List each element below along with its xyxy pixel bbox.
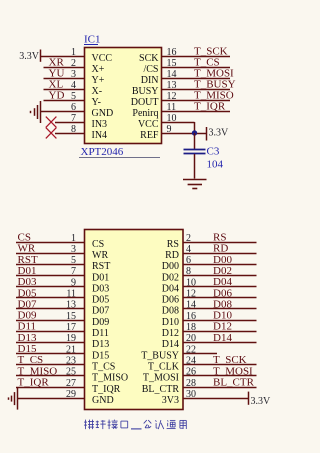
svg-text:X+: X+ bbox=[92, 64, 105, 75]
pin 7 wire (no connect) bbox=[55, 113, 85, 124]
svg-text:GND: GND bbox=[92, 395, 114, 406]
wire node to C3 bbox=[194, 133, 196, 149]
svg-text:15: 15 bbox=[66, 311, 76, 322]
capacitor C3 bbox=[184, 150, 206, 154]
svg-text:D02: D02 bbox=[213, 265, 232, 277]
junction node (pin9/pin10/C3) bbox=[192, 130, 197, 135]
svg-text:X-: X- bbox=[92, 86, 103, 97]
pin 24 wire / net T_SCK bbox=[183, 355, 257, 366]
net label T_SCK bbox=[194, 46, 228, 58]
svg-text:3V3: 3V3 bbox=[162, 395, 179, 406]
svg-text:T_MISO: T_MISO bbox=[92, 373, 128, 384]
svg-text:4: 4 bbox=[71, 80, 76, 91]
svg-text:DOUT: DOUT bbox=[131, 97, 159, 108]
svg-text:D13: D13 bbox=[92, 339, 109, 350]
pin 21 wire / net D15 bbox=[16, 344, 85, 355]
svg-text:16: 16 bbox=[167, 47, 177, 58]
svg-text:BUSY: BUSY bbox=[132, 86, 159, 97]
wire pin10 down to node bbox=[194, 122, 196, 133]
svg-text:DIN: DIN bbox=[141, 75, 159, 86]
power 3.3V (pin 30) bbox=[249, 392, 272, 408]
pin 6 GND wire bbox=[41, 102, 85, 113]
svg-text:IN3: IN3 bbox=[92, 119, 108, 130]
svg-text:5: 5 bbox=[71, 255, 76, 266]
pin 13 wire / net T_BUSY bbox=[162, 80, 231, 91]
svg-text:T_IQR: T_IQR bbox=[92, 384, 121, 395]
svg-text:T_IQR: T_IQR bbox=[18, 377, 50, 389]
svg-text:D06: D06 bbox=[162, 295, 179, 306]
pin 22 wire (unlabelled) bbox=[183, 344, 217, 355]
net label T_MISO bbox=[18, 365, 58, 377]
net label BL_CTR bbox=[213, 377, 255, 389]
IC1 right pin names bbox=[131, 53, 160, 141]
svg-text:1: 1 bbox=[71, 47, 76, 58]
IC value XPT2046 bbox=[79, 146, 160, 158]
pin 11 wire / net T_IQR bbox=[162, 102, 231, 113]
pin 4 wire / net RD bbox=[183, 244, 257, 255]
svg-text:3.3V: 3.3V bbox=[251, 396, 272, 407]
svg-text:GND: GND bbox=[92, 108, 114, 119]
svg-text:12: 12 bbox=[167, 91, 177, 102]
svg-text:10: 10 bbox=[186, 277, 196, 288]
IC1 left pin names bbox=[92, 53, 114, 141]
svg-text:12: 12 bbox=[186, 289, 196, 300]
net label D11 bbox=[18, 321, 37, 333]
svg-text:RS: RS bbox=[167, 239, 179, 250]
svg-text:IN4: IN4 bbox=[92, 130, 108, 141]
svg-text:/CS: /CS bbox=[143, 64, 158, 75]
net label T_MISO bbox=[194, 90, 234, 102]
net label D06 bbox=[213, 287, 232, 299]
net label D05 bbox=[18, 287, 37, 299]
net label D15 bbox=[18, 343, 37, 355]
svg-text:20: 20 bbox=[186, 333, 196, 344]
pin 19 wire / net D13 bbox=[16, 333, 85, 344]
svg-text:YD: YD bbox=[49, 90, 65, 102]
svg-text:9: 9 bbox=[167, 124, 172, 135]
pin 1 VCC wire bbox=[41, 47, 85, 58]
svg-text:D11: D11 bbox=[18, 321, 37, 333]
pin 20 wire / net D14 bbox=[183, 333, 257, 344]
svg-text:D08: D08 bbox=[162, 306, 179, 317]
svg-text:21: 21 bbox=[66, 344, 76, 355]
svg-text:25: 25 bbox=[66, 367, 76, 378]
net label YU bbox=[49, 68, 65, 80]
svg-text:T_MOSI: T_MOSI bbox=[213, 365, 253, 377]
svg-text:T_MISO: T_MISO bbox=[18, 365, 58, 377]
svg-text:2: 2 bbox=[186, 233, 191, 244]
svg-text:19: 19 bbox=[66, 333, 76, 344]
svg-text:IC1: IC1 bbox=[84, 34, 101, 46]
pin 9 REF wire bbox=[162, 124, 207, 135]
net label T_SCK bbox=[213, 354, 247, 366]
svg-text:D10: D10 bbox=[162, 317, 179, 328]
net label T_IQR bbox=[194, 101, 226, 113]
svg-text:CS: CS bbox=[18, 232, 31, 244]
pin 28 wire / net BL_CTR bbox=[183, 378, 257, 389]
svg-text:XPT2046: XPT2046 bbox=[81, 146, 124, 158]
connector right pin names bbox=[141, 239, 180, 406]
svg-text:1: 1 bbox=[71, 233, 76, 244]
net label RST bbox=[18, 254, 38, 266]
net label D03 bbox=[18, 276, 37, 288]
net label T_MOSI bbox=[213, 365, 253, 377]
net label RD bbox=[213, 243, 228, 255]
net label RS bbox=[213, 232, 226, 244]
caption 排针接口__公认通用 bbox=[84, 420, 186, 430]
pin 2 wire / net RS bbox=[183, 233, 257, 244]
power 3.3V (pin 1) bbox=[19, 50, 40, 63]
svg-text:D09: D09 bbox=[92, 317, 109, 328]
svg-text:T_IQR: T_IQR bbox=[194, 101, 226, 113]
svg-text:D07: D07 bbox=[92, 306, 109, 317]
svg-text:RS: RS bbox=[213, 232, 226, 244]
svg-text:26: 26 bbox=[186, 367, 196, 378]
pin 25 wire / net T_MISO bbox=[16, 367, 85, 378]
svg-text:VCC: VCC bbox=[138, 119, 159, 130]
svg-text:29: 29 bbox=[66, 389, 76, 400]
svg-text:22: 22 bbox=[186, 344, 196, 355]
net label D02 bbox=[213, 265, 232, 277]
svg-text:7: 7 bbox=[71, 113, 76, 124]
svg-text:D15: D15 bbox=[92, 350, 109, 361]
ground (pin 6, sideways) bbox=[31, 101, 41, 123]
pin 1 wire / net CS bbox=[16, 233, 85, 244]
svg-text:D14: D14 bbox=[213, 332, 232, 344]
net label YD bbox=[49, 90, 65, 102]
IC IC1 body (XPT2046) bbox=[85, 48, 162, 144]
svg-text:11: 11 bbox=[66, 289, 76, 300]
svg-text:D03: D03 bbox=[18, 276, 37, 288]
pin 16 wire / net D10 bbox=[183, 311, 257, 322]
capacitor value 104 bbox=[207, 159, 224, 171]
svg-text:CS: CS bbox=[92, 239, 104, 250]
svg-text:23: 23 bbox=[66, 355, 76, 366]
connector header body bbox=[85, 230, 184, 410]
pin 11 wire / net D05 bbox=[16, 289, 85, 300]
pin 10 wire / net D04 bbox=[183, 277, 257, 288]
pin 29 GND wire bbox=[17, 389, 84, 400]
no-connect X pin 7 bbox=[46, 117, 57, 128]
net label D14 bbox=[213, 332, 232, 344]
net label D13 bbox=[18, 332, 37, 344]
pin 23 wire / net T_CS bbox=[16, 355, 85, 366]
svg-text:D04: D04 bbox=[162, 283, 179, 294]
svg-text:104: 104 bbox=[207, 159, 224, 171]
net label D08 bbox=[213, 298, 232, 310]
pin 3 wire / net YU bbox=[44, 69, 85, 80]
svg-text:D14: D14 bbox=[162, 339, 179, 350]
net label T_CS bbox=[194, 57, 220, 69]
svg-text:T_CLK: T_CLK bbox=[148, 361, 180, 372]
svg-text:3: 3 bbox=[71, 69, 76, 80]
pin 5 wire / net RST bbox=[16, 255, 85, 266]
svg-text:D01: D01 bbox=[18, 265, 37, 277]
net label D01 bbox=[18, 265, 37, 277]
svg-text:13: 13 bbox=[167, 80, 177, 91]
svg-text:T_CS: T_CS bbox=[92, 361, 115, 372]
svg-text:BL_CTR: BL_CTR bbox=[142, 384, 180, 395]
pin 9 wire / net D03 bbox=[16, 277, 85, 288]
net label T_IQR bbox=[18, 377, 50, 389]
svg-text:Y+: Y+ bbox=[92, 75, 105, 86]
pin 30 wire bbox=[183, 389, 248, 400]
svg-text:4: 4 bbox=[186, 244, 191, 255]
svg-text:D12: D12 bbox=[213, 321, 232, 333]
svg-text:8: 8 bbox=[186, 266, 191, 277]
pin 8 wire / net D02 bbox=[183, 266, 257, 277]
svg-text:16: 16 bbox=[186, 311, 196, 322]
pin 2 wire / net XR bbox=[44, 58, 85, 69]
capacitor designator C3 bbox=[207, 146, 220, 158]
svg-text:REF: REF bbox=[140, 130, 159, 141]
svg-text:SCK: SCK bbox=[139, 53, 159, 64]
ground (C3) bbox=[183, 180, 207, 189]
pin 12 wire / net T_MISO bbox=[162, 91, 231, 102]
svg-text:D08: D08 bbox=[213, 298, 232, 310]
svg-text:9: 9 bbox=[71, 277, 76, 288]
svg-text:3.3V: 3.3V bbox=[19, 51, 40, 62]
svg-text:3: 3 bbox=[71, 244, 76, 255]
svg-text:5: 5 bbox=[71, 91, 76, 102]
pin 26 wire / net T_MOSI bbox=[183, 367, 257, 378]
svg-text:28: 28 bbox=[186, 378, 196, 389]
pin 15 wire / net T_CS bbox=[162, 58, 231, 69]
svg-text:RD: RD bbox=[165, 250, 179, 261]
svg-text:8: 8 bbox=[71, 124, 76, 135]
pin 14 wire / net T_MOSI bbox=[162, 69, 231, 80]
pin 3 wire / net WR bbox=[16, 244, 85, 255]
svg-text:17: 17 bbox=[66, 322, 76, 333]
pin 16 wire / net T_SCK bbox=[162, 47, 231, 58]
net label T_BUSY bbox=[194, 79, 236, 91]
net label D10 bbox=[213, 310, 232, 322]
svg-text:D01: D01 bbox=[92, 272, 109, 283]
pin 14 wire / net D08 bbox=[183, 300, 257, 311]
svg-text:C3: C3 bbox=[207, 146, 220, 158]
svg-text:WR: WR bbox=[92, 250, 108, 261]
svg-text:10: 10 bbox=[167, 113, 177, 124]
net label D00 bbox=[213, 254, 232, 266]
pin 6 wire / net D00 bbox=[183, 255, 257, 266]
svg-text:BL_CTR: BL_CTR bbox=[213, 377, 255, 389]
pin 15 wire / net D09 bbox=[16, 311, 85, 322]
net label WR bbox=[18, 243, 36, 255]
pin 27 wire / net T_IQR bbox=[16, 378, 85, 389]
svg-text:D00: D00 bbox=[162, 261, 179, 272]
svg-text:T_SCK: T_SCK bbox=[213, 354, 247, 366]
no-connect X pin 8 bbox=[46, 128, 57, 139]
wire C3 to ground bbox=[194, 154, 196, 179]
svg-text:11: 11 bbox=[167, 102, 177, 113]
pin 10 VCC wire bbox=[162, 113, 195, 124]
svg-text:D12: D12 bbox=[162, 328, 179, 339]
net label D12 bbox=[213, 321, 232, 333]
svg-text:6: 6 bbox=[71, 102, 76, 113]
svg-text:7: 7 bbox=[71, 266, 76, 277]
svg-text:2: 2 bbox=[71, 58, 76, 69]
pin 18 wire / net D12 bbox=[183, 322, 257, 333]
svg-text:18: 18 bbox=[186, 322, 196, 333]
net label CS bbox=[18, 232, 31, 244]
pin 12 wire / net D06 bbox=[183, 289, 257, 300]
net label D09 bbox=[18, 310, 37, 322]
svg-text:RST: RST bbox=[92, 261, 110, 272]
svg-text:15: 15 bbox=[167, 58, 177, 69]
svg-text:T_MOSI: T_MOSI bbox=[143, 373, 179, 384]
svg-text:Penirq: Penirq bbox=[132, 108, 158, 119]
power 3.3V (pin 9) bbox=[207, 127, 230, 141]
svg-text:D11: D11 bbox=[92, 328, 109, 339]
IC U1 designator IC1 bbox=[84, 34, 101, 46]
net label T_MOSI bbox=[194, 68, 234, 80]
svg-text:13: 13 bbox=[66, 300, 76, 311]
svg-text:VCC: VCC bbox=[92, 53, 113, 64]
net label D04 bbox=[213, 276, 232, 288]
pin 13 wire / net D07 bbox=[16, 300, 85, 311]
net label XR bbox=[49, 57, 65, 69]
svg-text:14: 14 bbox=[186, 300, 196, 311]
net label XL bbox=[49, 79, 64, 91]
svg-text:27: 27 bbox=[66, 378, 76, 389]
svg-text:D02: D02 bbox=[162, 272, 179, 283]
pin 17 wire / net D11 bbox=[16, 322, 85, 333]
net label D07 bbox=[18, 298, 37, 310]
svg-text:D05: D05 bbox=[92, 295, 109, 306]
svg-text:24: 24 bbox=[186, 355, 196, 366]
svg-text:T_CS: T_CS bbox=[18, 354, 44, 366]
svg-text:Y-: Y- bbox=[92, 97, 101, 108]
ground (pin 29, sideways) bbox=[9, 388, 18, 410]
svg-text:14: 14 bbox=[167, 69, 177, 80]
svg-text:D03: D03 bbox=[92, 283, 109, 294]
pin 5 wire / net YD bbox=[44, 91, 85, 102]
svg-text:D04: D04 bbox=[213, 276, 232, 288]
pin 7 wire / net D01 bbox=[16, 266, 85, 277]
svg-text:3.3V: 3.3V bbox=[209, 128, 230, 139]
svg-text:30: 30 bbox=[186, 389, 196, 400]
connector left pin names bbox=[92, 239, 128, 406]
pin 8 wire (no connect) bbox=[55, 124, 85, 135]
svg-text:D07: D07 bbox=[18, 298, 37, 310]
svg-text:6: 6 bbox=[186, 255, 191, 266]
net label T_CS bbox=[18, 354, 44, 366]
pin 4 wire / net XL bbox=[44, 80, 85, 91]
svg-text:T_BUSY: T_BUSY bbox=[141, 350, 179, 361]
